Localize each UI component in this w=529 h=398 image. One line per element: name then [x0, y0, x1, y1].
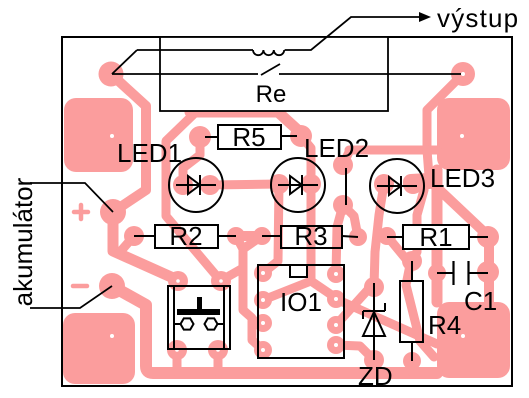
wire: jumper bottom pad to R3 right pad — [343, 205, 358, 237]
pad: IO1 pin 4 left — [254, 341, 272, 359]
pad: IO1 pin 1 left — [254, 264, 272, 282]
minus mark — [73, 284, 87, 289]
wire: R3 left pad into junction — [243, 236, 262, 249]
wire: branch to IO1 pin 2 right — [311, 281, 336, 298]
wire: button bottom-left pad stub — [173, 350, 182, 372]
relay switch output wire — [279, 73, 461, 75]
LED2 — [271, 158, 325, 212]
svg-text:R4: R4 — [428, 310, 461, 340]
svg-text:IO1: IO1 — [280, 287, 322, 317]
pad: switch right — [451, 62, 475, 86]
pad: ZD bottom — [364, 350, 384, 370]
pad: R3 right — [349, 228, 367, 246]
resistor R3 — [262, 226, 358, 248]
wire: switch right pad down to horizontal trace — [427, 74, 463, 150]
wire: R1 left pad to R4 top pad — [387, 236, 406, 259]
pad: LED3 right — [403, 174, 423, 194]
pad: C1 right — [477, 261, 499, 283]
copper pour pad bottom-right — [437, 302, 510, 378]
svg-text:LED2: LED2 — [304, 133, 369, 163]
pad: switch left — [99, 62, 124, 87]
pad: R2 right — [227, 227, 245, 245]
pad: R3 left — [253, 227, 271, 245]
resistor R4 — [400, 261, 423, 361]
wire: IO1 pin 2 right to bottom-right pour — [336, 299, 437, 344]
svg-text:R1: R1 — [419, 222, 452, 252]
svg-text:R2: R2 — [169, 221, 202, 251]
pad: IO1 pin 1 right — [327, 265, 345, 283]
pad: ZD top — [364, 277, 384, 297]
pad: jumper bottom — [333, 195, 353, 215]
svg-text:Re: Re — [256, 81, 287, 108]
pad: R5 right — [290, 125, 312, 147]
svg-text:akumulátor: akumulátor — [8, 177, 38, 306]
hole: switch right pad — [461, 72, 465, 76]
svg-text:ZD: ZD — [358, 361, 393, 391]
pushbutton — [168, 286, 230, 349]
wire: top-right pour down to bottom-right pour — [432, 170, 443, 302]
zener diode ZD — [363, 283, 385, 360]
wire jumper between LED2 and LED3 — [345, 168, 347, 205]
pad: IO1 pin 3 right — [327, 316, 345, 334]
pad: LED2 left — [269, 174, 289, 194]
wire: horizontal trace to top-right pour — [349, 146, 437, 155]
pad: IO1 pin 4 right — [327, 336, 345, 354]
pad: R4 bottom — [403, 352, 421, 370]
relay coil lead wire — [112, 50, 137, 74]
relay switch blade — [261, 64, 280, 75]
wire: switch pad to plus pad (vertical left) — [111, 74, 146, 212]
resistor R5 — [205, 125, 297, 149]
pad: IO1 pin 2 left — [254, 291, 272, 309]
capacitor C1 — [437, 261, 488, 285]
pad: button bottom-right — [208, 340, 228, 360]
wire: button bottom-right pad stub — [214, 350, 223, 372]
resistor R2 — [134, 225, 236, 248]
wire: LED2 left pad down to IO1 pin 1 left — [263, 184, 279, 273]
pad: R4 top — [402, 251, 422, 271]
wire: ZD bottom pad stub — [370, 360, 379, 371]
plus mark — [74, 205, 88, 219]
pad: LED1 left — [173, 175, 193, 195]
wire: R5 right pad down past LED2 right pad — [301, 136, 311, 281]
pad: button bottom-left — [167, 340, 187, 360]
wire: relay bottom trace to R5 right pad — [190, 112, 301, 133]
holes: IO1 pads — [261, 271, 338, 352]
wire: junction branch to button top-right pad — [222, 268, 243, 280]
holes: button pads — [175, 279, 223, 352]
hole: pour bottom-left — [110, 334, 114, 338]
svg-text:výstup: výstup — [437, 3, 519, 33]
LED3 — [370, 159, 424, 213]
wire: junction down to LED3 right pad blob — [427, 150, 429, 176]
relay coil line — [137, 49, 253, 51]
pad: R2 left — [124, 226, 144, 246]
svg-text:R5: R5 — [232, 122, 265, 152]
pad: C1 left — [428, 264, 446, 282]
copper pour pad top-right — [437, 98, 510, 170]
pad: R1 left — [378, 227, 396, 245]
IC IO1 — [258, 265, 344, 358]
wire: jumper bottom pad down to IO1 pin 1 right — [336, 205, 343, 274]
wire: R2 left pad branch — [120, 236, 134, 252]
pad: battery minus — [99, 273, 125, 299]
wire: LED1 right pad to LED2 left pad — [210, 184, 279, 185]
wire: link R2 right pad to R3 left pad — [236, 231, 262, 241]
resistor R1 — [387, 225, 488, 249]
wire: LED3 right blob to R1 right pad and down to bottom-right pour — [430, 181, 489, 302]
relay coil L1 — [253, 50, 284, 55]
pad: jumper top — [333, 155, 353, 175]
wire: LED3 left pad down to ZD top pad — [374, 184, 384, 287]
pad: R5 left — [189, 126, 211, 148]
pad: LED2 right — [301, 174, 321, 194]
copper pour pad bottom-left — [63, 313, 135, 384]
wire: R2 right / R3 left junction down to IO1 pin 4 left — [236, 236, 263, 350]
LED1 — [169, 158, 223, 212]
pad: LED1 right — [200, 175, 220, 195]
wire: R4 bottom pad stub — [408, 361, 417, 372]
pad: button top-right — [211, 271, 231, 291]
wire: R4 top pad under R4 body to bottom-right pour — [406, 265, 434, 357]
hole: pour top-right — [460, 134, 464, 138]
wire: R5 left pad to LED1 left pad — [183, 137, 200, 185]
wire: battery minus lead — [30, 286, 112, 308]
relay Re body — [160, 37, 388, 111]
wire: LED3 blob down to R4 top pad — [412, 190, 424, 261]
svg-text:LED3: LED3 — [430, 163, 495, 193]
hole: pour bottom-right — [461, 334, 465, 338]
pad: LED3 left — [374, 174, 394, 194]
pad: button top-left — [168, 271, 188, 291]
svg-text:LED1: LED1 — [117, 138, 182, 168]
wire: branch to IO1 pin 2 left — [263, 281, 311, 300]
wire: ZD top pad to IO1 pin 3 right — [336, 283, 374, 325]
svg-text:C1: C1 — [464, 286, 497, 316]
wire: coil to vystup — [285, 17, 420, 50]
node: LED3 right blob — [411, 181, 429, 182]
wire: minus pad to bottom ground trace — [112, 286, 437, 373]
pad: IO1 pin 2 right — [327, 290, 345, 308]
pad: IO1 pin 3 left — [254, 314, 272, 332]
relay switch common wire — [112, 73, 258, 75]
wire: relay bottom trace down through R2 to button — [166, 112, 220, 280]
wire: plus pad down to button top-left pad — [113, 212, 180, 281]
arrowhead vystup — [419, 12, 431, 22]
wire: IO1 pin 4 right to ZD bottom pad — [336, 345, 374, 360]
wire: jumper top pad stub to horizontal trace — [343, 152, 349, 165]
hole: pour top-left — [110, 134, 114, 138]
copper pour pad top-left — [64, 98, 133, 172]
board outline — [62, 37, 512, 386]
pad: R1 right — [477, 226, 499, 248]
wire: battery plus lead — [30, 183, 113, 212]
pad: battery plus — [100, 199, 126, 225]
svg-text:R3: R3 — [294, 221, 327, 251]
